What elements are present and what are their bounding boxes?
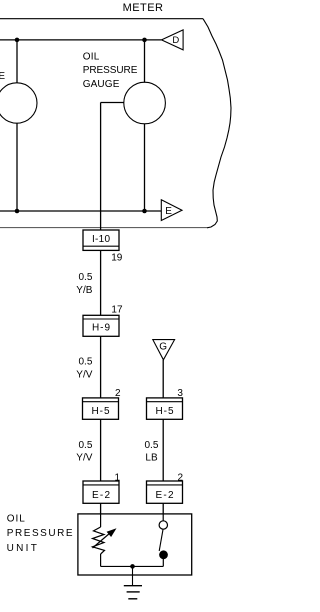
variable arrow — [93, 533, 111, 548]
wire oil gauge bottom lead — [144, 124, 146, 212]
switch contact (closed, filled) — [159, 550, 168, 559]
svg-text:GAUGE: GAUGE — [83, 79, 120, 90]
connector E-2 right — [147, 481, 183, 503]
svg-text:0.5: 0.5 — [145, 440, 159, 451]
node junction dot oil gauge bottom — [142, 209, 147, 214]
svg-text:UNIT: UNIT — [7, 543, 37, 554]
svg-text:OIL: OIL — [83, 51, 100, 62]
svg-text:H-9: H-9 — [92, 323, 110, 334]
ground — [124, 586, 142, 599]
node junction dot left gauge bottom — [15, 209, 20, 214]
svg-text:Y/V: Y/V — [76, 453, 92, 464]
svg-text:0.5: 0.5 — [79, 272, 93, 283]
wire left gauge top lead — [16, 40, 18, 83]
node junction dot ground tap — [130, 564, 135, 569]
gauge (left, partially shown) — [0, 83, 37, 123]
switch pivot (open contact) — [159, 521, 167, 529]
wire ground stem — [132, 566, 134, 585]
svg-text:Y/V: Y/V — [76, 369, 92, 380]
wire H-9 to H-5 — [100, 336, 102, 398]
svg-text:19: 19 — [111, 252, 123, 263]
wire E-2 to unit (left) — [100, 503, 102, 514]
wire H-5 to E-2 (left) — [100, 419, 102, 481]
svg-text:17: 17 — [111, 304, 123, 315]
oil pressure unit box — [78, 514, 192, 575]
node junction dot oil gauge top — [142, 38, 147, 43]
wire into sender resistor — [100, 514, 102, 527]
wire left gauge bottom lead — [16, 123, 18, 211]
wire top bus — [0, 39, 161, 41]
svg-text:E: E — [0, 71, 5, 82]
wire contact to internal bus — [162, 559, 164, 567]
svg-text:H-5: H-5 — [92, 406, 110, 417]
wire sender feed down to I-10 — [100, 103, 102, 231]
connector arrow E — [161, 200, 182, 221]
connector H-9 — [83, 315, 119, 336]
svg-text:PRESSURE: PRESSURE — [83, 65, 138, 76]
wire gauge left stub — [101, 102, 124, 104]
svg-text:METER: METER — [123, 2, 163, 14]
connector E-2 left — [83, 481, 119, 503]
svg-text:G: G — [159, 342, 167, 353]
svg-text:OIL: OIL — [7, 514, 25, 525]
wire into switch — [162, 514, 164, 521]
wire resistor to internal bus — [100, 554, 102, 566]
svg-text:H-5: H-5 — [156, 406, 174, 417]
wire I-10 to H-9 — [100, 250, 102, 315]
connector H-5 left — [83, 398, 119, 419]
svg-text:0.5: 0.5 — [79, 440, 93, 451]
wire H-5 to E-2 (right) — [162, 419, 164, 481]
wire lower bus — [0, 210, 161, 212]
meter box bottom edge — [0, 227, 207, 229]
wire internal ground bus — [101, 565, 164, 567]
meter box top edge — [0, 18, 203, 20]
resistor (variable sender element) — [93, 527, 105, 554]
svg-text:E-2: E-2 — [92, 490, 110, 501]
svg-text:E: E — [165, 206, 172, 217]
node junction dot left gauge top — [15, 38, 20, 43]
oil pressure gauge — [124, 82, 166, 124]
connector arrow G — [153, 340, 175, 360]
svg-text:D: D — [172, 35, 179, 46]
svg-text:I-10: I-10 — [92, 234, 110, 245]
wire G to H-5 right — [162, 360, 164, 398]
wire oil gauge top lead — [144, 40, 146, 83]
switch lever — [159, 530, 163, 552]
meter box wavy right edge — [203, 19, 231, 228]
svg-text:0.5: 0.5 — [79, 357, 93, 368]
svg-text:E-2: E-2 — [156, 490, 174, 501]
connector I-10 — [83, 230, 119, 250]
svg-text:PRESSURE: PRESSURE — [7, 528, 73, 539]
wire E-2 to unit (right) — [162, 503, 164, 514]
svg-text:Y/B: Y/B — [76, 285, 92, 296]
connector H-5 right — [147, 398, 183, 419]
svg-text:LB: LB — [145, 453, 158, 464]
connector arrow D — [162, 30, 184, 50]
